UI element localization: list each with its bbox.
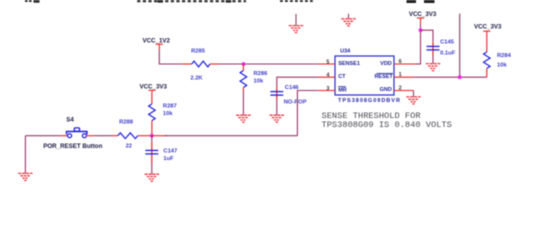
svg-text:VCC_1V2: VCC_1V2 [142, 37, 170, 44]
wire VCC to VDD vertical [420, 24, 422, 64]
resistor R284 [484, 37, 491, 78]
junction node R285/R286/SENSE1 [242, 62, 246, 66]
svg-text:C147: C147 [163, 148, 177, 154]
capacitor C146 [270, 87, 283, 100]
svg-text:R287: R287 [163, 104, 177, 110]
wire S4 to R288 [94, 135, 112, 137]
svg-text:10k: 10k [163, 111, 173, 117]
svg-text:NO-POP: NO-POP [284, 100, 307, 106]
pin 6 stub VDD [394, 63, 416, 65]
svg-text:R286: R286 [254, 71, 269, 77]
capacitor C145 [427, 42, 440, 55]
pin 3 stub MR [319, 90, 335, 92]
svg-text:0.1uF: 0.1uF [440, 51, 456, 57]
svg-text:TPS3808G09 IS 0.840 VOLTS: TPS3808G09 IS 0.840 VOLTS [322, 120, 452, 130]
resistor R288 [112, 133, 152, 139]
svg-text:2.2K: 2.2K [190, 76, 203, 82]
wire R286 to ground [242, 92, 244, 115]
svg-text:VCC_3V3: VCC_3V3 [409, 11, 437, 18]
ground below C145 [426, 64, 440, 71]
cropped text fragments top-middle [137, 0, 246, 2]
ground below R286 [236, 115, 250, 122]
svg-text:6: 6 [399, 59, 402, 65]
svg-text:C145: C145 [440, 39, 455, 45]
wire C145 to ground [432, 55, 434, 64]
svg-text:GND: GND [380, 87, 392, 93]
ground below C146 [270, 115, 284, 122]
wire C147 to ground [151, 163, 153, 174]
switch S4 pushbutton [61, 128, 95, 138]
svg-text:R284: R284 [497, 53, 512, 59]
svg-text:1uF: 1uF [163, 156, 174, 162]
svg-text:3: 3 [326, 86, 329, 92]
svg-text:VCC_3V3: VCC_3V3 [139, 84, 167, 91]
svg-text:TPS3808G09DBVR: TPS3808G09DBVR [338, 98, 401, 104]
svg-text:MR: MR [338, 87, 347, 93]
pin 4 stub CT [319, 76, 335, 78]
resistor R285 [183, 61, 219, 67]
cropped text fragments top-center [280, 0, 313, 2]
capacitor C147 [145, 136, 158, 163]
wire junction to MR elbow [152, 135, 167, 137]
svg-text:5: 5 [326, 59, 329, 65]
power symbol VCC_3V3 (left) [148, 90, 155, 92]
ground far left (POR net) [18, 136, 32, 181]
pin 2 stub GND [394, 90, 414, 92]
svg-text:RESET: RESET [374, 74, 393, 80]
svg-text:SENSE1: SENSE1 [338, 61, 360, 67]
pin 5 stub SENSE1 [319, 63, 335, 65]
cropped text fragments top-right [407, 0, 435, 3]
wire POR rail left segment [25, 135, 60, 137]
resistor R286 [240, 64, 247, 92]
resistor R287 [149, 93, 156, 136]
junction node VDD/C145 [419, 28, 423, 32]
power symbol VCC_3V3 (right) [483, 31, 490, 36]
svg-text:POR_RESET Button: POR_RESET Button [43, 143, 102, 150]
svg-text:1: 1 [399, 72, 402, 78]
cropped text fragments top-left [25, 0, 40, 3]
floating ground top A [289, 14, 303, 33]
power symbol VCC_3V3 (top middle) [417, 18, 424, 24]
svg-text:S4: S4 [66, 116, 74, 123]
svg-text:VCC_3V3: VCC_3V3 [474, 24, 502, 31]
wire MR vertical riser [297, 91, 318, 136]
wire VCC_1V2 to R285 [159, 51, 182, 65]
ground below C147 [145, 174, 159, 181]
op-amp-style IC U34 box [335, 56, 394, 95]
svg-text:R288: R288 [119, 119, 134, 125]
svg-text:10k: 10k [254, 79, 264, 85]
wire long vertical riser to top [459, 14, 461, 78]
svg-text:22: 22 [126, 143, 132, 149]
wire R285 to junction to SENSE1 pin [219, 63, 319, 65]
svg-text:10k: 10k [497, 63, 507, 69]
junction node R288/R287/C147 [150, 134, 154, 138]
ground below GND pin [406, 97, 420, 104]
wire RESET net to R284 [414, 76, 487, 78]
wire GND pin to ground [413, 91, 415, 97]
floating ground top B [341, 14, 355, 26]
wire junction to C145 [421, 30, 434, 42]
svg-text:CT: CT [338, 74, 346, 80]
wire C146 to ground [276, 100, 278, 115]
svg-text:2: 2 [399, 86, 402, 92]
junction node RESET/riser [458, 75, 462, 79]
svg-text:U34: U34 [340, 49, 351, 55]
svg-text:VDD: VDD [380, 61, 392, 67]
pin 1 stub RESET [394, 76, 414, 78]
wire CT net (pin4 to C146) [277, 77, 319, 87]
power symbol VCC_1V2 [156, 44, 163, 50]
svg-text:R285: R285 [191, 48, 206, 54]
